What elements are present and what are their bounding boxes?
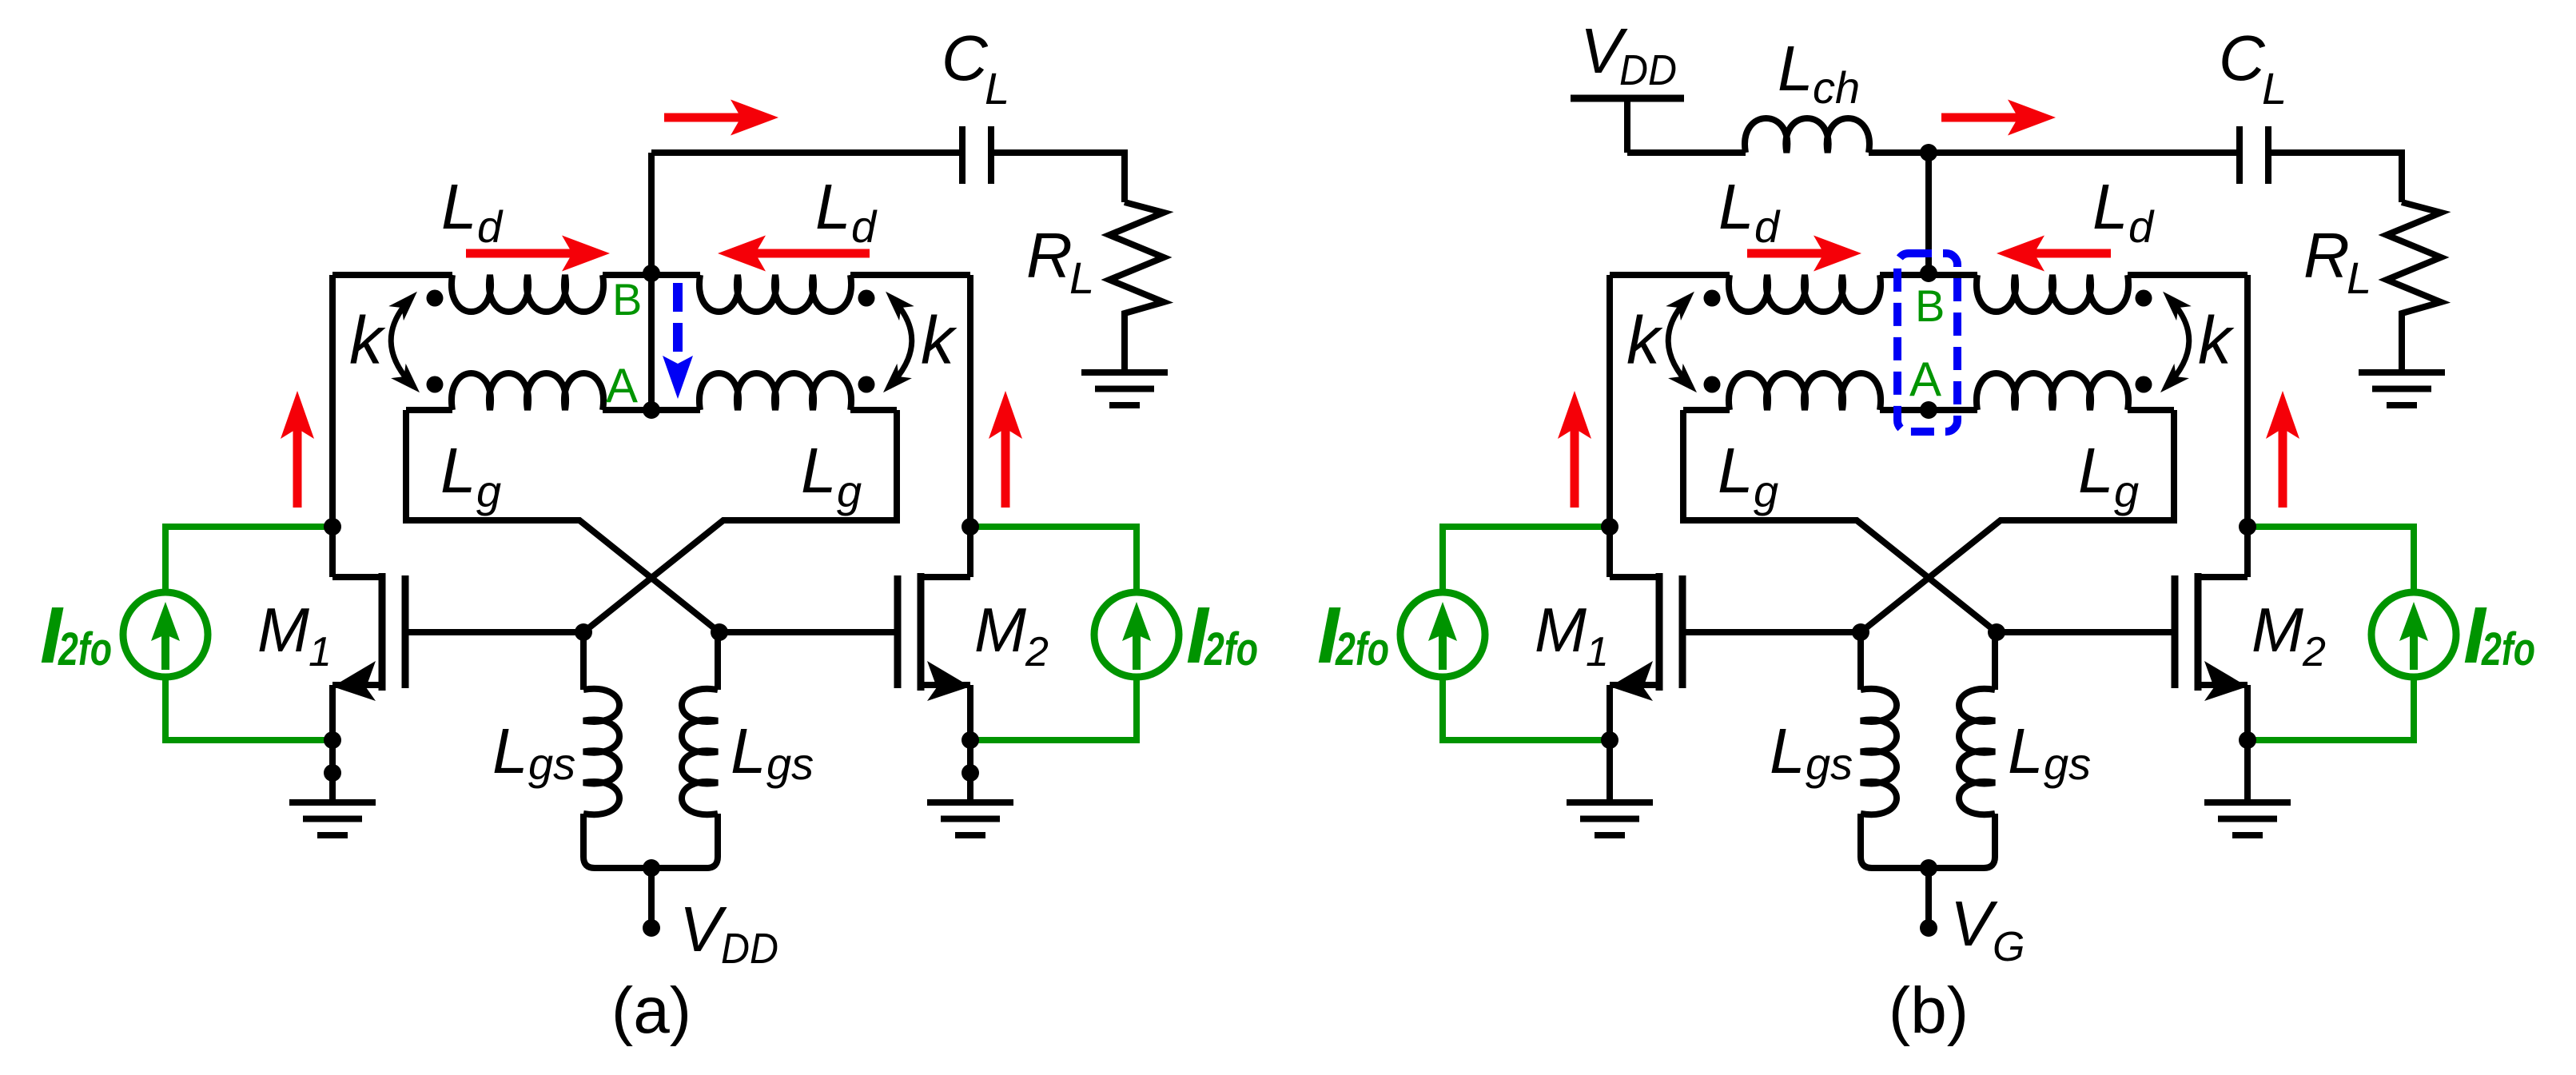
svg-text:k: k (2198, 303, 2235, 378)
svg-text:L: L (2008, 715, 2044, 786)
svg-text:L: L (1770, 715, 1806, 786)
svg-text:2fo: 2fo (1335, 623, 1389, 675)
svg-text:A: A (606, 359, 638, 412)
svg-text:L: L (492, 715, 528, 786)
svg-text:V: V (1950, 888, 1998, 959)
svg-text:gs: gs (528, 739, 575, 789)
svg-text:L: L (441, 171, 477, 242)
svg-text:M: M (974, 595, 1026, 665)
svg-text:M: M (257, 595, 309, 665)
svg-text:L: L (2078, 435, 2114, 506)
svg-text:M: M (2252, 595, 2303, 665)
svg-text:2: 2 (2302, 629, 2326, 675)
svg-text:DD: DD (1619, 46, 1677, 94)
svg-text:V: V (679, 894, 727, 965)
svg-text:L: L (1718, 435, 1754, 506)
svg-text:(b): (b) (1889, 974, 1969, 1047)
svg-text:L: L (2092, 171, 2128, 242)
svg-text:R: R (2303, 220, 2350, 291)
svg-text:ch: ch (1813, 62, 1860, 113)
svg-text:L: L (2347, 253, 2371, 303)
svg-text:g: g (837, 466, 862, 516)
svg-text:L: L (731, 715, 766, 786)
svg-text:gs: gs (2044, 739, 2091, 789)
svg-text:A: A (1909, 352, 1941, 406)
svg-text:gs: gs (1806, 739, 1853, 789)
svg-text:L: L (2262, 63, 2287, 113)
svg-text:(a): (a) (611, 974, 691, 1047)
svg-text:d: d (2128, 201, 2155, 252)
svg-text:k: k (921, 303, 958, 378)
svg-text:2: 2 (1025, 629, 1049, 675)
svg-text:L: L (985, 63, 1009, 113)
svg-text:1: 1 (1586, 629, 1609, 675)
svg-text:B: B (1915, 281, 1945, 331)
svg-text:d: d (477, 201, 504, 252)
svg-text:2fo: 2fo (58, 623, 112, 675)
svg-text:gs: gs (766, 739, 814, 789)
svg-text:d: d (1754, 201, 1781, 252)
svg-text:C: C (2219, 22, 2266, 94)
svg-text:L: L (801, 435, 837, 506)
svg-text:DD: DD (721, 925, 778, 973)
svg-text:L: L (1778, 33, 1814, 104)
svg-text:C: C (942, 22, 989, 94)
svg-text:2fo: 2fo (2481, 623, 2535, 675)
svg-text:2fo: 2fo (1204, 623, 1258, 675)
svg-text:R: R (1026, 220, 1073, 291)
svg-text:g: g (1754, 466, 1778, 516)
svg-text:g: g (476, 466, 501, 516)
svg-text:B: B (612, 274, 642, 324)
svg-text:k: k (349, 303, 386, 378)
svg-text:g: g (2114, 466, 2139, 516)
svg-text:L: L (440, 435, 476, 506)
svg-text:k: k (1626, 303, 1663, 378)
svg-text:L: L (1718, 171, 1754, 242)
svg-text:d: d (851, 201, 878, 252)
svg-text:M: M (1535, 595, 1587, 665)
svg-text:1: 1 (309, 629, 332, 675)
svg-text:G: G (1993, 924, 2025, 970)
svg-text:L: L (1069, 253, 1094, 303)
svg-text:L: L (815, 171, 851, 242)
